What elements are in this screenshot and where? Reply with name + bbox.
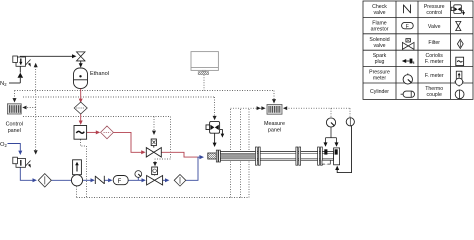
wire check valve to regulator	[19, 66, 21, 72]
legend symbol pressure control	[451, 5, 461, 14]
wire N2 inlet	[9, 82, 20, 84]
wire thermocouple riser 1	[230, 108, 232, 197]
wire H2 drop to pressure control	[214, 97, 216, 116]
legend symbol solenoid valve	[402, 39, 414, 50]
svg-text:Cylinder: Cylinder	[370, 89, 389, 95]
arrow left into measure panel right side	[283, 106, 287, 110]
arrowheads on dashed lines	[13, 63, 288, 167]
svg-text:F. meter: F. meter	[425, 73, 444, 79]
wire riser collector into measure panel	[231, 107, 266, 109]
filter F4	[174, 175, 186, 187]
pressure meter PG1	[135, 171, 142, 178]
wire filter F1 to coriolis	[80, 114, 82, 122]
wire valve V2 to filter F4	[163, 179, 168, 181]
arrow into ethanol tank	[79, 63, 83, 67]
wire regulator R2 down	[20, 167, 35, 180]
svg-text:F: F	[118, 179, 122, 185]
svg-text:Filter: Filter	[428, 40, 440, 46]
spark plug tab 1	[324, 149, 327, 154]
arrow 2 into measure panel left	[261, 106, 265, 110]
wire control trunk x=35.7	[35, 67, 37, 151]
measure panel	[267, 105, 282, 115]
legend symbol F. meter	[456, 71, 463, 85]
tube end cap	[334, 148, 340, 165]
wire exhaust loop	[337, 126, 351, 173]
wire filter F2 to valve V1	[113, 132, 144, 152]
pressure regulator R1 (N2)	[13, 56, 31, 66]
wire coriolis to filter F2	[87, 131, 99, 133]
legend symbol spark plug	[404, 60, 410, 62]
wire monitor drop	[203, 75, 205, 91]
wire check valve to flame arrestor	[104, 179, 111, 181]
svg-text:valve: valve	[373, 43, 385, 49]
arrow into measure panel top	[272, 99, 276, 103]
legend symbol pressure meter	[403, 75, 412, 84]
arrow into valve V2 actuator	[153, 162, 157, 166]
spark plug tab 2	[335, 149, 338, 154]
svg-text:F. meter: F. meter	[425, 59, 444, 65]
wire F-meter to check valve	[83, 179, 94, 181]
svg-text:panel: panel	[8, 128, 21, 134]
wire tank to filter F1	[80, 89, 82, 101]
wire thermocouple riser 3	[248, 108, 250, 197]
wire trunk branch into control panel	[24, 107, 36, 109]
tube flange pair 2	[296, 147, 301, 165]
arrow 1 into measure panel left	[257, 106, 261, 110]
wire H3 drop to solenoid valve V1	[153, 117, 155, 132]
wire regulator R1 to top header	[20, 55, 73, 58]
svg-text:arrestor: arrestor	[371, 26, 389, 32]
wire H1 left drop to control panel	[14, 91, 16, 99]
legend symbol check valve N	[404, 5, 411, 14]
tube flange pair 3	[318, 147, 323, 165]
svg-text:O2: O2	[0, 142, 8, 148]
legend symbol filter	[457, 39, 463, 48]
flame arrestor FA1	[113, 176, 128, 185]
legend symbol cylinder	[401, 93, 404, 95]
svg-text:Valve: Valve	[428, 24, 441, 30]
coriolis F. meter CFM1	[74, 126, 87, 140]
arrow left into control panel side	[22, 106, 26, 110]
svg-text:control: control	[426, 10, 442, 16]
legend symbol thermo couple	[455, 90, 464, 99]
tube body	[220, 152, 333, 161]
arrow up to N2 regulator	[34, 63, 38, 67]
arrow into pressure control top	[213, 116, 217, 120]
wire thermocouple riser 2	[240, 108, 242, 197]
svg-text:couple: couple	[427, 92, 442, 98]
solenoid valve V2 (O2)	[147, 167, 163, 185]
svg-text:meter: meter	[373, 76, 387, 82]
filter F3 (O2)	[38, 174, 51, 187]
svg-text:N2: N2	[0, 81, 7, 87]
wire H2 signal line y=97	[23, 96, 215, 98]
svg-text:valve: valve	[373, 10, 385, 16]
valve V0 (ethanol shutoff)	[77, 52, 86, 61]
wire coriolis meter drop	[80, 140, 86, 198]
legend symbol valve	[456, 21, 461, 30]
wire H1 signal bus y=90.5	[15, 90, 275, 92]
wire filter to F-meter	[51, 179, 71, 181]
legend symbol flame arrestor	[402, 22, 414, 28]
PC1 vent line	[220, 130, 223, 135]
wire valve V1 to mix point	[161, 152, 197, 157]
wire H1 right drop to measure panel	[273, 91, 275, 101]
tube inlet injector	[208, 153, 217, 159]
arrow into control panel top	[13, 98, 17, 102]
inlet flange	[216, 150, 220, 162]
tube bottom fitting	[322, 160, 330, 164]
F. meter FM1	[71, 160, 82, 186]
solenoid valve V1 (ethanol)	[146, 139, 161, 157]
arrow into valve V1 actuator	[152, 131, 156, 135]
filter F1 (ethanol)	[74, 102, 87, 114]
wire filter F4 to riser	[186, 157, 198, 180]
check valve CV2 (N symbol)	[95, 176, 104, 184]
wire flame arrestor to valve V2	[128, 179, 144, 181]
wire N2 riser	[19, 78, 21, 83]
wire gauge stub	[137, 177, 139, 180]
wire drop to pressure gauge PG2	[330, 108, 332, 117]
svg-text:Measure: Measure	[264, 121, 285, 127]
wire valve to tank	[80, 61, 82, 64]
wire O2 inlet	[8, 144, 21, 151]
pressure regulator R2 (O2)	[13, 157, 31, 167]
heater coil inside tube	[221, 154, 255, 158]
svg-text:plug: plug	[375, 59, 385, 65]
thermocouple TC1	[346, 118, 354, 126]
pressure gauge PG2	[326, 118, 335, 127]
tube flange pair 1	[256, 147, 261, 165]
legend symbol coriolis F. meter	[456, 57, 464, 65]
svg-text:F: F	[406, 24, 409, 30]
wire PC1 stem to tube inlet	[214, 133, 216, 143]
pressure control PC1 body	[206, 121, 220, 133]
ethanol tank	[74, 68, 88, 88]
arrow down to O2 regulator	[34, 150, 38, 154]
wire PG2 to spark plugs	[326, 127, 337, 143]
wire drop to thermocouple TC	[349, 108, 351, 117]
control panel	[7, 104, 21, 114]
filter F2	[101, 126, 114, 139]
svg-text:Ethanol: Ethanol	[90, 71, 109, 77]
svg-text:Control: Control	[6, 122, 23, 128]
wire H3 drop to solenoid valve V2	[155, 117, 171, 164]
wire F-meter drop	[76, 186, 78, 197]
wire mix to tube inlet	[198, 156, 203, 158]
wire H3 signal line y=116.5	[23, 116, 171, 118]
arrow into ethanol valve	[72, 54, 76, 58]
computer monitor	[191, 52, 218, 72]
wire right signal line into measure panel	[284, 107, 351, 109]
svg-text:panel: panel	[268, 128, 281, 134]
wire bottom signal bus y=197.5	[77, 197, 250, 199]
check valve CV1 (up triangle)	[18, 73, 24, 78]
